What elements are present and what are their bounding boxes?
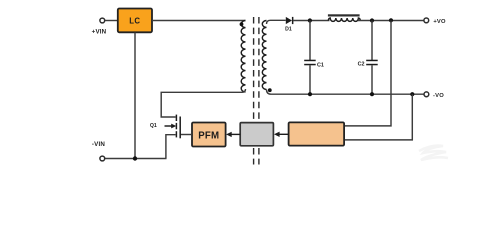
block LC: [118, 9, 152, 33]
arrow feedback to optocoupler: [274, 132, 289, 137]
svg-text:C1: C1: [317, 62, 324, 68]
svg-text:+VIN: +VIN: [92, 29, 107, 36]
svg-text:-VO: -VO: [433, 93, 444, 99]
inductor L1 winding: [328, 18, 360, 21]
node dot C2 bottom: [370, 92, 374, 96]
Q1 substrate arrow: [165, 124, 177, 129]
svg-text:-VIN: -VIN: [92, 141, 106, 148]
wire LC to transformer primary: [152, 20, 246, 22]
node dot -VO tap: [410, 92, 414, 96]
feedback sense wire from -VO rail: [344, 94, 412, 140]
terminal +VO: [424, 18, 429, 23]
svg-text:PFM: PFM: [198, 130, 219, 141]
transistor Q1: [176, 115, 180, 139]
svg-text:C2: C2: [358, 61, 365, 67]
Q1 source wire to -VIN rail: [166, 135, 176, 159]
wire secondary return rail to -VO: [267, 90, 424, 95]
transformer T1 secondary winding: [262, 21, 266, 90]
wire +VIN to LC: [105, 20, 118, 22]
wire secondary top to D1: [267, 20, 286, 24]
wire inductor to +VO: [358, 20, 424, 22]
terminal -VIN: [100, 156, 105, 161]
inductor L1 core bar: [328, 14, 360, 16]
terminal -VO: [424, 92, 429, 97]
svg-text:Q1: Q1: [150, 123, 157, 129]
wire PFM to Q1 gate: [180, 134, 192, 136]
-VIN rail: [105, 158, 167, 160]
watermark: [419, 146, 448, 160]
capacitor C1: [304, 21, 316, 95]
node dot feedback top tap: [389, 18, 393, 22]
terminal +VIN: [100, 18, 105, 23]
node dot C1 bottom: [308, 92, 312, 96]
svg-text:LC: LC: [129, 17, 140, 26]
transformer primary phase dot: [240, 22, 244, 26]
node dot D1/C1: [308, 18, 312, 22]
svg-text:D1: D1: [285, 27, 292, 33]
transformer T1 primary winding: [241, 21, 245, 93]
block feedback amplifier: [289, 122, 345, 145]
node dot LC tap on -VIN rail: [133, 156, 137, 160]
arrow optocoupler to PFM: [226, 132, 240, 137]
transformer core: [254, 17, 259, 165]
feedback sense wire from +VO rail: [344, 21, 391, 126]
wire LC bottom to -VIN rail: [134, 32, 136, 158]
capacitor C2: [366, 21, 378, 95]
node dot C2 top: [370, 18, 374, 22]
block PFM: [192, 123, 226, 147]
wire primary bottom to Q1 drain: [161, 89, 245, 117]
svg-text:+VO: +VO: [433, 19, 446, 25]
diode D1: [286, 17, 294, 24]
transformer secondary phase dot: [268, 88, 272, 92]
block optocoupler: [240, 123, 273, 146]
wire D1 to inductor: [293, 20, 329, 22]
